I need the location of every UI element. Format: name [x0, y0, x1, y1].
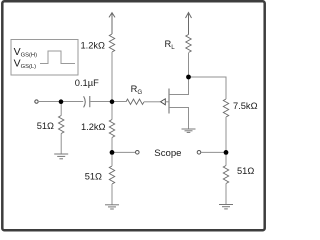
gate arrow (open triangle)	[161, 99, 166, 105]
supply arrow (left branch)	[109, 13, 115, 34]
wire: node D to 51 resistor	[225, 152, 227, 165]
resistor 51 (left shunt)	[59, 116, 64, 134]
svg-text:L: L	[171, 44, 175, 51]
wire: resistor to ground	[60, 134, 62, 155]
wire: drain node to right branch	[189, 77, 227, 99]
node C junction dot	[110, 150, 115, 155]
resistor 1.2k (top left branch)	[109, 34, 114, 52]
wire: node B to capacitor	[61, 101, 83, 103]
wire: resistor to ground	[225, 184, 227, 205]
resistor 1.2k (lower left branch)	[109, 120, 114, 138]
pulse waveform	[40, 51, 75, 64]
ground (right)	[219, 205, 233, 209]
ground (mosfet source)	[182, 129, 196, 132]
svg-text:V: V	[14, 46, 21, 58]
wire: node A to resistor	[111, 102, 113, 120]
wire: node C to scope terminal	[112, 151, 135, 153]
svg-text:51Ω: 51Ω	[237, 166, 254, 176]
wire: resistor to node C	[111, 138, 113, 153]
wire: RG to gate arrow	[144, 101, 160, 103]
mosfet drain lead	[169, 77, 189, 95]
scope terminal (right)	[197, 151, 201, 155]
node A junction dot	[110, 99, 115, 104]
mosfet Q1 gate bar	[168, 89, 170, 114]
wire: resistor to node A	[111, 52, 113, 102]
wire: arrow to gate bar	[165, 101, 169, 103]
svg-text:51Ω: 51Ω	[37, 121, 54, 131]
resistor 7.5k	[223, 99, 228, 117]
wire: resistor to ground	[111, 184, 113, 205]
node D2 drain junction dot	[186, 75, 191, 80]
wire: capacitor to node A	[90, 101, 112, 103]
svg-text:Scope: Scope	[154, 148, 181, 159]
wire: node C to resistor	[111, 152, 113, 166]
svg-text:51Ω: 51Ω	[85, 172, 102, 182]
ground (left shunt)	[54, 154, 68, 159]
supply arrow (RL)	[186, 13, 192, 35]
svg-text:G: G	[137, 89, 142, 96]
resistor 51 (mid bottom)	[109, 166, 114, 184]
resistor RL	[186, 35, 191, 53]
svg-text:V: V	[14, 57, 21, 69]
node B junction dot	[59, 99, 64, 104]
svg-text:1.2kΩ: 1.2kΩ	[80, 41, 105, 51]
wire: node A to RG	[112, 101, 126, 103]
wire: 7.5k to node D	[225, 117, 227, 152]
resistor RG (gate series)	[126, 99, 144, 104]
wire: terminal to node B	[38, 101, 61, 103]
waveform legend box	[11, 40, 78, 76]
svg-text:7.5kΩ: 7.5kΩ	[233, 101, 258, 111]
ground (mid bottom)	[105, 205, 119, 209]
wire: scope terminal to node D	[201, 151, 226, 153]
svg-text:1.2kΩ: 1.2kΩ	[81, 122, 106, 132]
svg-text:GS(L): GS(L)	[21, 64, 37, 70]
svg-text:GS(H): GS(H)	[21, 53, 37, 59]
svg-text:0.1µF: 0.1µF	[75, 78, 99, 88]
capacitor 0.1uF	[84, 96, 90, 107]
mosfet source lead	[169, 108, 189, 130]
border frame	[2, 1, 264, 230]
wire: node B down to resistor	[60, 102, 62, 116]
resistor 51 (right)	[223, 166, 228, 184]
node D junction dot	[224, 150, 229, 155]
input terminal	[35, 100, 38, 103]
scope terminal (left)	[136, 151, 140, 155]
wire: drain node up to RL	[188, 53, 190, 77]
